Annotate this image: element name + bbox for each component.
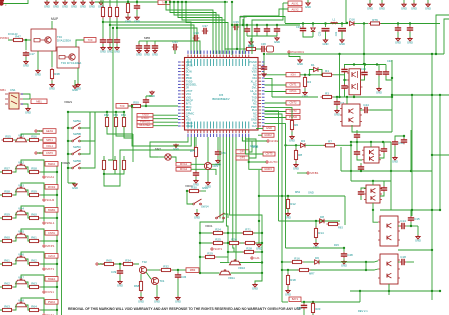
- wire IC to CNT2: [265, 102, 287, 104]
- wire D3 row in: [286, 144, 301, 146]
- wire pot row b: [200, 272, 220, 274]
- svg-text:GND: GND: [134, 19, 140, 23]
- svg-text:BD63083EKV: BD63083EKV: [212, 97, 229, 101]
- capacitor C51: [407, 26, 413, 32]
- wire C36 down: [177, 279, 179, 297]
- svg-text:MXT1: MXT1: [46, 267, 54, 271]
- resistor R24: [212, 227, 225, 234]
- wire MR1 left: [158, 156, 165, 158]
- ground C55: [193, 179, 199, 187]
- wire bundle 6: [219, 137, 221, 219]
- wire TXD0 to IC: [153, 114, 178, 116]
- wire rail to R13: [225, 2, 237, 49]
- wire right edge 2: [444, 19, 449, 54]
- wire R30 out: [201, 190, 207, 192]
- capacitor C4: [341, 84, 347, 90]
- svg-text:MODSEL: MODSEL: [139, 123, 151, 127]
- svg-text:D6: D6: [315, 256, 319, 260]
- wire C52 top: [403, 136, 405, 138]
- switch SW5C: [72, 149, 81, 155]
- wire to MB label: [178, 269, 186, 271]
- junction R30: [186, 190, 188, 192]
- svg-text:GP2: GP2: [240, 156, 246, 160]
- junction rbus2 c: [281, 269, 283, 271]
- wire PWRGD to IC: [153, 121, 178, 123]
- wire array r 0 top: [106, 112, 108, 118]
- svg-text:GND: GND: [289, 139, 295, 143]
- wire tr cap down 2: [409, 32, 411, 38]
- wire IC to CNT1: [265, 84, 287, 86]
- wire gnd stub 1: [46, 0, 48, 2]
- wire modD down: [417, 226, 419, 236]
- wire grid row3: [228, 251, 262, 253]
- wire down to module A: [363, 24, 365, 65]
- wire to C54: [217, 137, 219, 150]
- wire sw 2 right: [80, 112, 90, 154]
- wire row 6 a: [14, 305, 17, 310]
- wire D6 out: [319, 261, 378, 262]
- switch SW5D: [72, 163, 81, 169]
- wire IC1 pin3: [23, 104, 28, 108]
- svg-text:R60: R60: [4, 235, 10, 239]
- wire gnd stub 3: [64, 0, 66, 2]
- wire vert 341: [340, 147, 342, 171]
- svg-text:R68: R68: [134, 284, 140, 288]
- junction grid out: [261, 272, 263, 274]
- svg-text:C36: C36: [261, 42, 266, 46]
- wire row 6 b: [26, 305, 30, 310]
- wire MB5 to IC: [155, 41, 200, 54]
- net label CNT5: [263, 152, 275, 156]
- resistor R1: [321, 69, 334, 76]
- junction 259-221: [258, 220, 260, 222]
- svg-text:GJ1: GJ1: [254, 256, 260, 260]
- filter FB1: [267, 46, 274, 52]
- ground below C33: [144, 49, 150, 57]
- junction c4: [276, 24, 278, 26]
- wire C20 stub: [303, 302, 305, 304]
- junction pa: [199, 256, 201, 258]
- wire to gnd C36: [250, 38, 252, 42]
- potentiometer VR6: [16, 253, 27, 261]
- wire IC1 pin1: [23, 94, 30, 99]
- wire row 0 wiper: [21, 160, 44, 175]
- ground C27: [339, 39, 345, 47]
- resistor R34: [122, 258, 135, 265]
- wire MODSEL to IC: [153, 125, 178, 127]
- svg-text:D1: D1: [311, 63, 315, 67]
- junction vcc rail: [231, 24, 233, 26]
- svg-text:GND: GND: [25, 111, 31, 115]
- wire array r 0 bottom: [107, 127, 133, 135]
- svg-text:IGN: IGN: [291, 73, 296, 77]
- wire bundle 5: [236, 137, 241, 263]
- wire C27 down: [341, 32, 343, 40]
- wire stair 5: [182, 2, 225, 54]
- svg-text:VOL1: VOL1: [46, 144, 53, 148]
- ground G5: [80, 1, 86, 9]
- junction cellD2: [372, 209, 374, 211]
- capacitor C41: [172, 40, 178, 50]
- diode D1: [314, 67, 318, 71]
- wire array2 r 2 bottom: [104, 170, 124, 175]
- wire SCH2: [37, 130, 43, 132]
- capacitor C33: [144, 44, 150, 50]
- junction C48: [343, 247, 345, 249]
- wire cellD2 feed: [372, 181, 374, 185]
- ground G1: [44, 1, 50, 9]
- svg-text:GND: GND: [334, 113, 340, 117]
- junction rail right: [224, 1, 226, 3]
- svg-text:MUP: MUP: [51, 17, 58, 21]
- potentiometer VR3: [16, 184, 27, 192]
- wire cellC feed: [370, 142, 372, 147]
- svg-text:R6: R6: [294, 123, 298, 127]
- resistor R60 ladder: [28, 166, 41, 173]
- wire row 6 out: [41, 309, 58, 311]
- net label PWRGD: [137, 120, 153, 124]
- wire C13 top: [364, 65, 366, 71]
- wire bot pin 1: [150, 137, 188, 157]
- wire R48 to gnd: [51, 81, 53, 85]
- junction array r 0: [106, 111, 108, 113]
- wire rbus 2: [265, 114, 283, 302]
- wire C51 down: [394, 146, 396, 157]
- svg-text:SPK1: SPK1: [46, 138, 53, 142]
- junction ladder 1: [56, 194, 58, 196]
- ground grid: [252, 283, 258, 291]
- junction BAT rail: [359, 290, 361, 292]
- wire right edge 1: [436, 15, 449, 54]
- wire to C17: [25, 40, 27, 50]
- wire VCC cap drop 1: [246, 25, 248, 27]
- wire sw 1 right: [80, 112, 95, 141]
- wire cellD2 bottom: [372, 203, 374, 210]
- potentiometer VR10: [230, 259, 241, 265]
- junction cap 0 tr: [397, 22, 399, 24]
- wire ladder bus: [56, 165, 58, 315]
- svg-text:GND: GND: [367, 6, 373, 10]
- wire top feed 1: [102, 0, 104, 6]
- svg-text:CNT5: CNT5: [265, 152, 273, 156]
- junction c2: [256, 24, 258, 26]
- junction 440-291: [439, 290, 441, 292]
- wire bot right 1: [242, 137, 252, 152]
- ground C7: [334, 109, 340, 117]
- svg-text:GND: GND: [23, 64, 29, 68]
- wire row 5 b: [26, 282, 30, 287]
- zener D15: [311, 28, 315, 32]
- junction C4: [343, 79, 345, 81]
- ground PGOOD1: [297, 59, 303, 67]
- wire grid v3: [261, 233, 263, 281]
- junction 339-97: [338, 96, 340, 98]
- capacitor C15: [408, 216, 420, 222]
- wire vlong 440: [439, 95, 441, 210]
- junction VCC: [242, 24, 244, 26]
- junction bp2: [131, 105, 133, 107]
- junction modE a: [365, 261, 367, 263]
- junction rail142 c: [382, 141, 384, 143]
- net label RXD0: [137, 116, 153, 120]
- resistor R29: [204, 251, 217, 258]
- wire MR1 right: [171, 157, 176, 162]
- wire R79 down: [195, 159, 197, 172]
- wire row 2 a: [14, 213, 17, 218]
- ground below R33: [125, 16, 131, 24]
- capacitor C34: [136, 44, 142, 50]
- wire gnd box a: [256, 128, 263, 130]
- capacitor C21: [107, 38, 113, 44]
- junction rail171 d: [360, 170, 362, 172]
- wire R20 down: [312, 314, 314, 315]
- svg-text:R32: R32: [163, 264, 169, 268]
- resistor R30 top: [101, 6, 104, 19]
- junction 432-291: [431, 290, 433, 292]
- svg-text:C13: C13: [361, 67, 366, 71]
- svg-text:GND: GND: [379, 6, 385, 10]
- resistor R61 ladder: [28, 189, 41, 196]
- junction ladder 0: [56, 171, 58, 173]
- wire C5 down: [378, 76, 380, 88]
- wire R76 out: [381, 23, 440, 25]
- junction 389-291: [388, 290, 390, 292]
- wire R8 top: [295, 145, 297, 150]
- wire row 3 in: [0, 240, 3, 242]
- wire rail 181: [351, 180, 391, 182]
- junction sw 3: [67, 167, 69, 169]
- potentiometer VR4: [16, 207, 27, 215]
- svg-text:R65: R65: [106, 258, 112, 262]
- junction left bus: [112, 27, 114, 29]
- net label MODSEL: [137, 123, 153, 127]
- wire stair 2: [170, 2, 216, 54]
- wire MXA2 out: [191, 169, 216, 175]
- wire D1 out: [318, 70, 322, 75]
- pin SCA1: [43, 313, 54, 315]
- ground near C36: [248, 41, 254, 49]
- svg-text:C30: C30: [193, 31, 199, 35]
- switch SW14: [193, 199, 202, 205]
- svg-text:GND: GND: [72, 186, 78, 190]
- wire R7 out: [337, 144, 352, 146]
- junction 432-250: [431, 249, 433, 251]
- svg-text:PW10: PW10: [48, 300, 56, 304]
- wire GND3 feed: [249, 137, 262, 169]
- svg-text:SW5B: SW5B: [73, 132, 81, 136]
- junction 339-54: [338, 53, 340, 55]
- svg-text:GND: GND: [274, 40, 280, 44]
- junction modA b: [364, 63, 366, 65]
- wire gnd stub tr: [307, 0, 309, 3]
- junction R4 top: [304, 74, 306, 76]
- wire T01 down: [156, 285, 158, 297]
- junction 7V0 C35: [136, 1, 138, 3]
- resistor R61 array2: [113, 159, 116, 172]
- junction modE b: [365, 269, 367, 271]
- svg-text:SCP1: SCP1: [214, 247, 222, 251]
- wire sw14 a: [187, 191, 193, 204]
- net label GP1: [236, 150, 249, 154]
- junction sw 1: [67, 140, 69, 142]
- svg-text:C18: C18: [400, 255, 406, 259]
- wire row 1 out: [41, 194, 58, 196]
- svg-text:BAT1: BAT1: [292, 297, 299, 301]
- wire sw 3 right: [80, 112, 95, 168]
- ground below T4: [35, 69, 41, 77]
- resistor R64 ladder: [28, 258, 41, 265]
- resistor R513: [1, 304, 14, 311]
- capacitor C17: [23, 51, 35, 57]
- wire stair 3: [174, 2, 219, 54]
- junction modA bot: [353, 96, 355, 98]
- wire to top right rail: [240, 17, 285, 55]
- wire PGOOD1 down: [289, 53, 300, 60]
- junction 7V0 R33: [127, 1, 129, 3]
- wire row 4 in: [0, 263, 3, 265]
- ground C54: [215, 159, 221, 167]
- junction R32: [177, 269, 179, 271]
- wire R30 down: [102, 19, 104, 39]
- resistor R27: [244, 241, 257, 244]
- wire modA bot a: [353, 95, 355, 97]
- svg-text:SW10: SW10: [48, 162, 56, 166]
- junction C27: [341, 22, 343, 24]
- junction R14: [315, 220, 317, 222]
- wire row 97 right: [334, 96, 393, 98]
- capacitor C43: [274, 27, 280, 33]
- ground TR2: [379, 3, 385, 11]
- wire modE out: [406, 261, 414, 263]
- svg-text:RXD0: RXD0: [141, 116, 149, 120]
- wire array vertical: [67, 112, 69, 183]
- resistor R14: [314, 227, 324, 240]
- wire hshort 155: [432, 154, 449, 156]
- resistor R53 array: [114, 116, 117, 129]
- junction R13 node: [236, 48, 238, 50]
- wire modB c: [360, 109, 363, 111]
- junction AUX node: [119, 263, 121, 265]
- wire cap 1 down: [256, 33, 258, 36]
- junction ladder 5: [56, 286, 58, 288]
- wire T3 emitter down: [77, 68, 79, 84]
- resistor R17: [298, 268, 311, 271]
- junction 432-95: [431, 94, 433, 96]
- wire C26 stub: [325, 24, 327, 28]
- wire noop: [112, 27, 114, 29]
- ground below R48: [49, 83, 55, 91]
- wire hlong 291: [350, 290, 440, 292]
- svg-text:GND: GND: [49, 87, 55, 91]
- pin VCA1: [43, 175, 54, 179]
- pin SWL1: [43, 221, 55, 225]
- capacitor C46: [381, 147, 387, 153]
- junction grid 228-243: [227, 242, 229, 244]
- wire R8 down: [295, 162, 297, 165]
- svg-text:D3: D3: [301, 139, 305, 143]
- wire vert 411: [410, 130, 412, 171]
- wire row 1 wiper: [21, 183, 44, 198]
- wire vert 391: [390, 142, 392, 210]
- wire C42 top: [356, 130, 358, 133]
- ground below C21: [107, 46, 113, 54]
- wire pad to top: [4, 0, 29, 4]
- svg-text:CNT3: CNT3: [289, 109, 297, 113]
- ground C43: [149, 91, 155, 99]
- svg-text:GND: GND: [376, 91, 382, 95]
- wire C54 down: [217, 156, 219, 160]
- junction stair 6: [185, 1, 187, 3]
- svg-text:SCH3: SCH3: [46, 198, 54, 202]
- wire cellD2 to module D: [373, 210, 378, 222]
- wire gnd stub 4: [73, 0, 75, 2]
- ground tr cap 1: [395, 37, 401, 45]
- resistor R57: [1, 166, 14, 173]
- wire 7V0 to R50: [128, 105, 131, 107]
- wire C47 down: [360, 170, 362, 172]
- wire VR1-R56: [27, 139, 30, 141]
- wire C43 gnd link: [146, 95, 152, 97]
- resistor R12: [286, 198, 296, 211]
- svg-text:GND2: GND2: [270, 139, 279, 143]
- junction grid 262-233: [261, 232, 263, 234]
- wire MXB1: [297, 172, 307, 174]
- wire C7 stub: [336, 97, 338, 100]
- wire VCC stub: [242, 19, 244, 25]
- wire D15 bottom: [312, 32, 314, 38]
- svg-text:R29: R29: [207, 251, 213, 255]
- wire r pin 6: [265, 78, 273, 97]
- svg-text:C40: C40: [387, 59, 392, 63]
- ground C36b: [175, 296, 181, 304]
- wire modB bottom link: [352, 125, 392, 132]
- svg-text:CNT2: CNT2: [289, 101, 297, 105]
- junction stair 5: [181, 1, 183, 3]
- svg-text:GND: GND: [80, 4, 86, 8]
- wire array rail: [68, 111, 124, 113]
- wire sw 3 left: [68, 167, 72, 169]
- ground R8: [293, 163, 299, 171]
- svg-text:C21: C21: [335, 31, 338, 36]
- wire pot a out: [241, 262, 263, 264]
- pin SCH3: [43, 198, 55, 202]
- wire R18 top: [287, 270, 289, 276]
- svg-text:R71: R71: [245, 227, 251, 231]
- junction C45: [356, 141, 358, 143]
- ground C34: [262, 73, 266, 77]
- svg-text:PWM1: PWM1: [0, 36, 9, 40]
- wire R33 top: [127, 0, 129, 4]
- svg-text:R16: R16: [294, 256, 300, 260]
- junction array r 2: [123, 111, 125, 113]
- ground below C32: [152, 49, 158, 57]
- ground R18: [285, 289, 291, 297]
- wire AUTO feed: [249, 161, 266, 163]
- svg-text:SW5A: SW5A: [73, 119, 81, 123]
- svg-text:MB3: MB3: [190, 268, 196, 272]
- svg-text:GND: GND: [114, 50, 120, 54]
- resistor R48: [50, 68, 60, 81]
- wire top right rail: [285, 23, 347, 25]
- switch SW5A: [72, 123, 81, 129]
- pin CNTR: [35, 151, 47, 155]
- wire tr stub 2: [381, 0, 383, 4]
- junction D3 feed: [284, 144, 286, 146]
- wire row 3 b: [26, 236, 30, 241]
- resistor R13: [245, 43, 258, 50]
- svg-text:GND: GND: [285, 216, 291, 220]
- wire MB5 drop 3: [154, 41, 156, 44]
